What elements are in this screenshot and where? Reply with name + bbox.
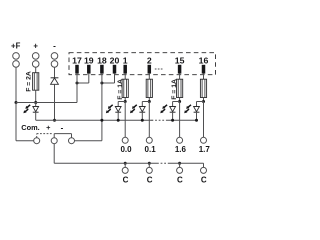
- svg-text:+: +: [33, 42, 38, 51]
- Com terminal 1: [34, 138, 40, 144]
- svg-text:C: C: [123, 175, 129, 184]
- wire pin 18 column down to Com terminal 3: [74, 74, 102, 141]
- wire pin 19 branch to pin 17 column: [77, 74, 89, 83]
- wire pin 20 branch to pin 18 column: [102, 74, 115, 83]
- output terminal label 0.1: [145, 145, 157, 154]
- svg-text:C: C: [147, 175, 153, 184]
- pin 1 number label: [123, 56, 128, 66]
- junction LED channel 0.1 on 0V bus: [141, 119, 144, 122]
- wire LED channel 1.6 cathode to 0V bus: [172, 113, 174, 121]
- junction C terminal 1.6 on C bus: [178, 162, 181, 165]
- svg-text:15: 15: [175, 56, 185, 66]
- fuse channel 0.1 (F = 1A): [146, 79, 152, 97]
- svg-text:C: C: [177, 175, 183, 184]
- pin 2 number label: [147, 56, 152, 66]
- Com terminal 2: [51, 138, 57, 144]
- wire C bus stub to C terminal 0.0: [124, 163, 126, 167]
- svg-text:16: 16: [199, 56, 209, 66]
- wire channel 1.6 down to output terminal: [179, 102, 181, 138]
- output terminal label 1.6: [175, 145, 187, 154]
- wire power LED cathode to 0V bus: [35, 113, 37, 121]
- fuse channel 0.0 (F = 1A): [122, 79, 128, 97]
- pin 15 contact: [178, 65, 182, 74]
- fuse F1 (F = 2A): [33, 73, 39, 91]
- C terminal label under 0.0: [123, 175, 129, 184]
- pin 18 contact: [100, 65, 104, 74]
- terminal + label: [33, 42, 38, 51]
- jumper option + (dashed): [37, 134, 52, 138]
- connector module outline (dashed box): [69, 53, 216, 75]
- diode D1 (reverse polarity protection): [51, 78, 59, 85]
- wire LED channel 0.0 cathode to 0V bus: [117, 113, 119, 121]
- wire pin 2 to fuse: [148, 74, 150, 80]
- svg-text:19: 19: [84, 56, 94, 66]
- LED channel 0.1 emission arrows: [130, 105, 137, 113]
- wire C bus stub to C terminal 1.6: [179, 163, 181, 167]
- wire C bus stub to C terminal 0.1: [148, 163, 150, 167]
- junction channel 1.7 fuse output: [202, 100, 205, 103]
- fuse channel 1.6 value label F = 1A: [171, 79, 178, 100]
- output terminal 0.0: [122, 137, 128, 143]
- svg-text:F = 2A: F = 2A: [25, 71, 32, 92]
- junction channel 0.1 fuse output: [148, 100, 151, 103]
- pin 2 contact: [148, 65, 152, 74]
- junction channel 1.6 fuse output: [178, 100, 181, 103]
- svg-text:1.7: 1.7: [199, 145, 211, 154]
- wire diode D1 down to 0V bus: [54, 84, 56, 120]
- pin 16 contact: [202, 65, 206, 74]
- pin 1 contact: [123, 65, 127, 74]
- C terminal label under 0.1: [147, 175, 153, 184]
- wire 0V bus (dashed continuation): [152, 119, 167, 121]
- svg-text:F = 1A: F = 1A: [117, 79, 124, 100]
- wire C bus (solid left part): [54, 162, 157, 164]
- svg-text:-: -: [61, 123, 64, 132]
- C terminal under 0.1: [146, 167, 152, 173]
- Com. label: [21, 123, 39, 132]
- LED channel 1.6: [170, 107, 176, 113]
- connector continuation dashes: [155, 68, 164, 70]
- wire pin 17 column down to +24V rail: [76, 74, 78, 103]
- wire branch to LED channel 0.1: [142, 102, 149, 107]
- LED channel 0.0: [115, 107, 121, 113]
- output terminal 0.1: [146, 137, 152, 143]
- svg-text:+F: +F: [11, 42, 21, 51]
- LED channel 0.0 emission arrows: [106, 105, 113, 113]
- svg-text:1: 1: [123, 56, 128, 66]
- svg-text:1.6: 1.6: [175, 145, 187, 154]
- output terminal 1.6: [177, 137, 183, 143]
- svg-text:0.0: 0.0: [120, 145, 132, 154]
- wire - terminal down to diode D1: [54, 67, 56, 78]
- pin 18 number label: [97, 56, 107, 66]
- LED channel 0.1: [139, 107, 145, 113]
- wire +24V rail (left): [16, 102, 77, 104]
- wire LED channel 0.1 cathode to 0V bus: [141, 113, 143, 121]
- wire branch to LED channel 1.6: [173, 102, 180, 107]
- terminal +F clamp circles: [13, 53, 20, 68]
- svg-text:C: C: [201, 175, 207, 184]
- junction channel 0.0 fuse output: [124, 100, 127, 103]
- LED channel 1.7: [194, 107, 200, 113]
- wire branch to LED channel 1.7: [197, 102, 204, 107]
- wire fuse F1 to +24V rail: [35, 90, 37, 102]
- svg-text:0.1: 0.1: [145, 145, 157, 154]
- terminal +F label: [11, 42, 21, 51]
- wire pin 1 to fuse: [124, 74, 126, 80]
- pin 15 number label: [175, 56, 185, 66]
- jumper - (solid strap Com to -): [54, 134, 71, 138]
- fuse F1 value label F = 2A: [25, 71, 32, 92]
- wire C bus corner down to C terminal 1.7: [203, 163, 205, 167]
- wire +F column down to Com terminal 1: [16, 103, 34, 141]
- C terminal under 1.7: [201, 167, 207, 173]
- wire C bus (dashed continuation): [157, 162, 169, 164]
- power LED: [33, 103, 39, 113]
- junction pins 18/20: [100, 82, 103, 85]
- wire 0V bus (solid right part): [166, 119, 197, 121]
- terminal + clamp circles: [32, 53, 39, 68]
- power LED emission arrows: [23, 105, 30, 113]
- junction +F on +24V rail: [15, 101, 18, 104]
- C terminal under 1.6: [177, 167, 183, 173]
- wire + terminal down to fuse F1: [35, 67, 37, 73]
- jumper - label: [61, 123, 64, 132]
- svg-text:-: -: [53, 41, 56, 50]
- output terminal label 0.0: [120, 145, 132, 154]
- pin 20 contact: [113, 65, 117, 74]
- junction C terminal 0.1 on C bus: [148, 162, 151, 165]
- C terminal label under 1.7: [201, 175, 207, 184]
- junction LED channel 0.0 on 0V bus: [117, 119, 120, 122]
- wire fuse to junction channel 1.6: [179, 98, 181, 102]
- wire pin 16 to fuse: [203, 74, 205, 80]
- svg-text:17: 17: [72, 56, 82, 66]
- pin 17 contact: [75, 65, 79, 74]
- terminal - label: [53, 41, 56, 50]
- terminal - clamp circles: [51, 53, 58, 68]
- junction pin 18 column on 0V bus: [100, 119, 103, 122]
- output terminal label 1.7: [199, 145, 211, 154]
- fuse channel 0.0 value label F = 1A: [117, 79, 124, 100]
- jumper + label: [46, 123, 51, 132]
- wire branch to LED channel 0.0: [118, 102, 125, 107]
- wire C bus (solid right part): [169, 162, 204, 164]
- wire Com terminal 2 down to C bus: [53, 144, 55, 164]
- LED channel 1.6 emission arrows: [160, 105, 167, 113]
- wire LED channel 1.7 cathode to 0V bus: [196, 113, 198, 121]
- wire channel 0.1 down to output terminal: [148, 102, 150, 138]
- wire fuse to junction channel 0.0: [124, 98, 126, 102]
- svg-text:F = 1A: F = 1A: [171, 79, 178, 100]
- wire channel 0.0 down to output terminal: [124, 102, 126, 138]
- junction LED channel 1.6 on 0V bus: [171, 119, 174, 122]
- svg-text:+: +: [46, 123, 51, 132]
- pin 16 number label: [199, 56, 209, 66]
- C terminal under 0.0: [122, 167, 128, 173]
- C terminal label under 1.6: [177, 175, 183, 184]
- wire 0V bus (solid left part): [36, 119, 153, 121]
- wire fuse to junction channel 0.1: [148, 98, 150, 102]
- fuse channel 1.6 (F = 1A): [177, 79, 183, 97]
- output terminal 1.7: [201, 137, 207, 143]
- junction LED channel 1.7 on 0V bus: [195, 119, 198, 122]
- LED channel 1.7 emission arrows: [184, 105, 191, 113]
- fuse channel 1.7 (F = 1A): [200, 79, 206, 97]
- pin 19 number label: [84, 56, 94, 66]
- junction - column on 0V bus: [53, 119, 56, 122]
- junction C terminal 0.0 on C bus: [124, 162, 127, 165]
- wire pin 15 to fuse: [179, 74, 181, 80]
- pin 17 number label: [72, 56, 82, 66]
- wire fuse to junction channel 1.7: [203, 98, 205, 102]
- junction pins 17/19: [76, 82, 79, 85]
- svg-text:Com.: Com.: [21, 123, 39, 132]
- wire +F terminal down to +24V rail: [15, 67, 17, 102]
- junction + column on +24V rail: [34, 101, 37, 104]
- pin 20 number label: [110, 56, 120, 66]
- wire channel 1.7 down to output terminal: [203, 102, 205, 138]
- svg-text:20: 20: [110, 56, 120, 66]
- Com terminal 3: [69, 138, 75, 144]
- svg-text:18: 18: [97, 56, 107, 66]
- pin 19 contact: [87, 65, 91, 74]
- svg-text:2: 2: [147, 56, 152, 66]
